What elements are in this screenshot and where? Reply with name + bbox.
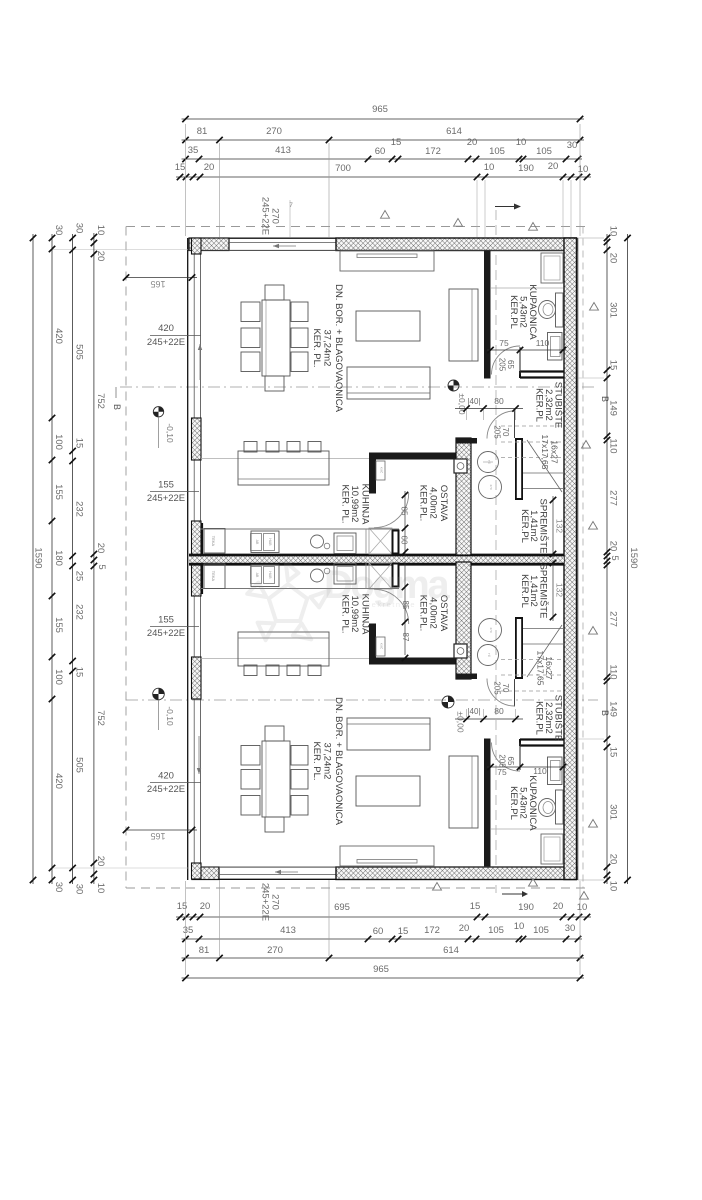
dim col right detail: [604, 226, 620, 892]
svg-text:205: 205: [498, 358, 507, 372]
section line B-B bottom: [126, 700, 610, 716]
svg-text:20: 20: [548, 161, 559, 172]
left wall pillar 180 centre: [192, 521, 203, 596]
axis markers bottom: [433, 879, 538, 891]
svg-text:30: 30: [74, 884, 85, 895]
watermark logo: [247, 562, 450, 640]
svg-text:KER.PL: KER.PL: [534, 701, 545, 735]
svg-text:35: 35: [188, 145, 199, 156]
door jamb pillar top: [393, 531, 399, 554]
top wall inner face line: [189, 250, 576, 252]
room label kitchen top: [340, 484, 371, 525]
svg-text:81: 81: [199, 945, 210, 956]
svg-text:752: 752: [95, 710, 106, 726]
svg-text:155: 155: [158, 480, 174, 491]
svg-text:172: 172: [424, 925, 440, 936]
svg-text:172: 172: [425, 146, 441, 157]
bathroom west wall bottom: [484, 739, 491, 867]
kitchen wall top unit: [369, 453, 467, 494]
door jamb pillar bottom: [393, 564, 399, 587]
svg-text:245+22E: 245+22E: [147, 784, 185, 795]
toilet top: [539, 293, 564, 327]
kitchen island bottom unit: [238, 632, 329, 666]
section line through stairwell: [495, 204, 528, 898]
svg-text:270: 270: [266, 126, 282, 137]
left wall bottom corner: [192, 863, 202, 879]
svg-text:-0,10: -0,10: [165, 706, 175, 726]
svg-text:505: 505: [74, 757, 85, 773]
svg-text:KUHINJA: KUHINJA: [360, 484, 371, 525]
svg-text:30: 30: [53, 225, 64, 236]
svg-text:420: 420: [53, 773, 64, 789]
door label 65/205 top: [498, 358, 516, 372]
svg-text:105: 105: [533, 925, 549, 936]
svg-text:10: 10: [516, 137, 527, 148]
svg-text:KUĆ: KUĆ: [380, 643, 385, 650]
dim 40-80 bottom: [455, 706, 523, 722]
svg-text:10: 10: [514, 921, 525, 932]
svg-text:420: 420: [158, 323, 174, 334]
svg-text:232: 232: [74, 604, 85, 620]
dining table top unit: [262, 300, 290, 376]
stair size label top: [540, 435, 560, 470]
svg-text:80: 80: [494, 396, 504, 406]
svg-text:5: 5: [96, 564, 107, 569]
svg-text:205: 205: [498, 754, 507, 768]
coffee table top unit: [356, 311, 420, 341]
svg-text:15: 15: [608, 747, 619, 758]
svg-text:277: 277: [608, 490, 619, 506]
svg-text:87: 87: [401, 633, 410, 642]
window label 270 bottom: [260, 883, 281, 921]
svg-text:AB: AB: [255, 573, 259, 578]
ostava door arc bottom: [374, 589, 409, 624]
section line B-B top: [112, 387, 610, 410]
svg-text:155: 155: [53, 617, 64, 633]
svg-text:HAB: HAB: [268, 538, 272, 546]
svg-text:205: 205: [493, 425, 502, 439]
svg-text:KER.PL: KER.PL: [508, 295, 519, 329]
kitchen wall bottom unit: [369, 624, 467, 665]
svg-text:110: 110: [608, 664, 619, 679]
svg-text:132: 132: [555, 519, 565, 533]
svg-text:301: 301: [608, 302, 619, 318]
ostava door arc top: [374, 493, 409, 528]
svg-text:20: 20: [200, 901, 211, 912]
left wall pillar 100 lower: [192, 657, 202, 699]
svg-text:KER.PL: KER.PL: [534, 388, 545, 422]
sink bottom unit: [251, 565, 280, 587]
bathroom south wall bottom: [520, 739, 564, 746]
svg-text:10: 10: [95, 883, 106, 894]
room label kitchen bottom: [340, 594, 371, 635]
tall cupboard bottom: [376, 637, 385, 656]
svg-text:752: 752: [95, 393, 106, 409]
cooktop top unit: [311, 535, 330, 549]
svg-text:7: 7: [289, 202, 293, 209]
svg-text:37,24m2: 37,24m2: [322, 743, 333, 780]
bottom wall window opening arrow: [275, 870, 298, 874]
svg-text:965: 965: [373, 964, 389, 975]
svg-text:149: 149: [608, 701, 619, 717]
dim 132 top: [550, 496, 565, 557]
cupboard O top: [454, 459, 467, 473]
svg-text:420: 420: [158, 771, 174, 782]
spremiste wall bottom: [456, 562, 477, 679]
svg-text:277: 277: [608, 611, 619, 627]
svg-text:100: 100: [53, 669, 64, 685]
svg-text:110: 110: [608, 438, 619, 453]
svg-text:KER.PL.: KER.PL.: [418, 485, 429, 521]
svg-text:10: 10: [608, 881, 619, 892]
svg-text:KER.PL: KER.PL: [519, 574, 530, 608]
right wall hatched: [564, 238, 577, 880]
svg-text:B: B: [112, 404, 122, 410]
svg-text:965: 965: [372, 104, 388, 115]
svg-text:149: 149: [608, 400, 619, 416]
svg-text:AB: AB: [255, 540, 259, 545]
stair treads top: [501, 426, 564, 492]
washbasin bottom: [548, 757, 563, 785]
svg-text:15: 15: [470, 901, 481, 912]
bottom wall corner pillar: [192, 867, 219, 880]
window label 155 lower-left: [147, 615, 199, 640]
sofa top unit: [347, 367, 430, 399]
svg-text:75: 75: [499, 338, 509, 348]
left wall top corner: [192, 238, 202, 254]
dining table bottom unit: [262, 741, 290, 817]
svg-text:20: 20: [204, 162, 215, 173]
svg-text:20: 20: [95, 251, 106, 262]
svg-text:KER.PL: KER.PL: [508, 786, 519, 820]
kitchen counter top unit: [201, 459, 399, 555]
dim col 4 left: [91, 225, 107, 894]
svg-text:110: 110: [533, 766, 547, 776]
top wall main hatched: [336, 238, 577, 251]
svg-text:KER. PL.: KER. PL.: [311, 741, 322, 780]
svg-text:190: 190: [518, 902, 534, 913]
hall door bottom: [487, 679, 515, 707]
coffee table bottom unit: [356, 776, 420, 806]
svg-text:413: 413: [280, 925, 296, 936]
stair size label bottom: [536, 651, 555, 686]
dim col 3 left: [69, 223, 84, 895]
svg-text:17x17,65: 17x17,65: [536, 651, 546, 686]
left wall window opening arrow lower: [197, 736, 201, 774]
dim 75-110 top: [487, 338, 566, 353]
svg-text:81: 81: [197, 126, 208, 137]
svg-text:165: 165: [150, 279, 165, 289]
dim row 81-270-614 bottom: [182, 945, 585, 961]
svg-text:DN. BOR. + BLAGOVAONICA: DN. BOR. + BLAGOVAONICA: [333, 697, 344, 826]
left wall pillar 100 upper: [192, 418, 202, 460]
dim col 2 left: [49, 225, 64, 893]
svg-text:245+22E: 245+22E: [260, 197, 271, 235]
boilers top: [478, 452, 502, 499]
svg-text:232: 232: [74, 501, 85, 517]
room label spremiste bottom: [519, 564, 549, 619]
svg-text:245+22E: 245+22E: [147, 493, 185, 504]
bathroom door 65 top: [492, 346, 521, 375]
dim col 1590 right: [624, 234, 639, 884]
shower top: [491, 253, 563, 288]
svg-text:270: 270: [267, 945, 283, 956]
svg-text:20: 20: [459, 923, 470, 934]
svg-text:HAB: HAB: [268, 571, 272, 579]
room label ostava top: [418, 485, 450, 522]
svg-text:505: 505: [74, 344, 85, 360]
svg-text:20: 20: [95, 543, 106, 554]
hall door top: [487, 411, 515, 439]
svg-text:420: 420: [53, 328, 64, 344]
vent shaft top: [369, 528, 392, 554]
svg-text:105: 105: [536, 146, 552, 157]
svg-text:10: 10: [608, 226, 619, 237]
svg-text:10: 10: [95, 225, 106, 236]
cupboard O bottom: [454, 644, 467, 658]
door label 65/205 bottom: [498, 754, 516, 768]
tall cupboard top: [376, 461, 385, 480]
svg-text:20: 20: [608, 253, 619, 264]
svg-text:20: 20: [467, 137, 478, 148]
svg-text:-0,10: -0,10: [165, 423, 175, 443]
bottom wall inner face line: [192, 866, 576, 868]
svg-text:10: 10: [484, 162, 495, 173]
svg-text:15: 15: [398, 926, 409, 937]
sofa bottom unit: [347, 718, 430, 750]
svg-text:15: 15: [74, 438, 85, 449]
svg-text:180: 180: [53, 550, 64, 566]
svg-text:270: 270: [489, 627, 493, 632]
bathroom door 65 bottom: [492, 743, 521, 772]
svg-text:25: 25: [74, 571, 85, 582]
svg-text:KUĆ: KUĆ: [380, 467, 385, 474]
svg-text:TEKA: TEKA: [211, 571, 216, 582]
stair treads bottom: [501, 625, 564, 691]
svg-text:75: 75: [497, 767, 507, 777]
window label 420 upper-left: [147, 323, 201, 348]
roof overhang dashed outline: [126, 227, 586, 889]
svg-text:695: 695: [334, 902, 350, 913]
door label 70/205 top: [493, 425, 511, 439]
central wall: [189, 555, 564, 564]
svg-text:80: 80: [494, 706, 504, 716]
svg-text:35: 35: [183, 925, 194, 936]
svg-text:KER. PL.: KER. PL.: [340, 484, 351, 523]
room label ostava bottom: [418, 595, 450, 632]
left extension lines: [52, 250, 188, 869]
window label 420 lower-left: [147, 771, 201, 796]
dim 85-87 bottom: [401, 561, 410, 661]
room label stubiste top: [534, 382, 564, 428]
vent shaft bottom: [369, 563, 392, 589]
svg-text:17x17,65: 17x17,65: [540, 435, 550, 470]
svg-text:105: 105: [489, 146, 505, 157]
boilers bottom: [478, 619, 502, 666]
svg-text:85: 85: [401, 601, 410, 610]
svg-text:60: 60: [400, 536, 409, 545]
fridge top unit: [204, 529, 225, 554]
bathroom south wall top: [520, 371, 564, 378]
svg-text:245+22E: 245+22E: [260, 883, 271, 921]
svg-text:|40|: |40|: [467, 707, 480, 716]
svg-text:110: 110: [536, 338, 550, 348]
svg-text:301: 301: [608, 804, 619, 820]
kitchen island top unit: [238, 451, 329, 485]
svg-text:20: 20: [95, 856, 106, 867]
svg-text:10: 10: [577, 902, 588, 913]
dim 75-110 bottom: [487, 764, 566, 777]
svg-text:KER. PL.: KER. PL.: [311, 328, 322, 367]
svg-text:413: 413: [275, 145, 291, 156]
svg-text:30: 30: [565, 923, 576, 934]
room label kupaonica top: [508, 284, 538, 340]
svg-text:15: 15: [608, 360, 619, 371]
oven top unit: [334, 533, 356, 554]
sideboard top unit: [340, 251, 434, 271]
toilet bottom: [539, 790, 564, 824]
svg-text:15: 15: [391, 137, 402, 148]
window label 270 top: [260, 197, 294, 237]
island stools bottom unit: [244, 665, 321, 676]
svg-text:5: 5: [609, 555, 620, 560]
right wall outer line: [577, 238, 579, 880]
svg-text:16x27: 16x27: [550, 440, 560, 463]
dim 132 bottom: [550, 560, 565, 621]
svg-text:270: 270: [489, 484, 493, 489]
svg-text:1590: 1590: [33, 547, 44, 568]
level marker -0.10 top: [153, 407, 175, 448]
left wall window opening arrow upper: [198, 344, 202, 380]
dim col 1590 left: [30, 234, 44, 884]
svg-text:20: 20: [608, 854, 619, 865]
room label spremiste top: [519, 499, 549, 554]
level marker -0.10 bottom: [153, 688, 175, 730]
spremiste wall top: [456, 438, 477, 555]
svg-text:10: 10: [578, 164, 589, 175]
svg-text:205: 205: [493, 681, 502, 695]
svg-text:15: 15: [175, 162, 186, 173]
extension lines top dims: [186, 124, 581, 237]
left wall lines: [188, 238, 201, 880]
window label 155 upper-left: [147, 480, 199, 505]
svg-text:132: 132: [555, 583, 565, 597]
svg-text:100: 100: [53, 434, 64, 450]
svg-text:190: 190: [518, 163, 534, 174]
svg-text:37,24m2: 37,24m2: [322, 330, 333, 367]
svg-text:165: 165: [150, 831, 165, 841]
island stools top unit: [244, 442, 321, 453]
svg-text:155: 155: [53, 484, 64, 500]
extension lines bottom dims: [186, 880, 581, 975]
wardrobe bottom unit: [449, 756, 478, 828]
fridge bottom unit: [204, 564, 225, 589]
room label kupaonica bottom: [508, 775, 538, 831]
dim row 81-270-614 top: [182, 126, 585, 143]
shower bottom: [491, 829, 563, 864]
bottom wall window band: [219, 867, 336, 879]
oven bottom unit: [334, 564, 356, 585]
room label living bottom: [311, 697, 344, 826]
room label stubiste bottom: [534, 695, 564, 741]
svg-text:155: 155: [158, 615, 174, 626]
svg-text:60: 60: [375, 146, 386, 157]
room label living top: [311, 284, 344, 413]
svg-text:60: 60: [373, 926, 384, 937]
bottom wall main hatched: [336, 867, 577, 880]
svg-text:245+22E: 245+22E: [147, 337, 185, 348]
dim row 965 bottom: [182, 964, 585, 981]
svg-text:TEKA: TEKA: [211, 536, 216, 547]
svg-text:±0,00: ±0,00: [457, 393, 467, 414]
dim row 35-413 top: [182, 137, 583, 162]
dim row 35-413 bottom: [182, 921, 583, 942]
svg-text:15: 15: [74, 667, 85, 678]
kitchen counter bottom unit: [201, 563, 399, 659]
svg-text:614: 614: [446, 126, 462, 137]
svg-text:OSTAVA: OSTAVA: [438, 485, 449, 522]
wardrobe top unit: [449, 289, 478, 361]
bathroom west wall top: [484, 251, 491, 379]
svg-text:KER.PL: KER.PL: [519, 509, 530, 543]
washbasin top: [548, 333, 563, 361]
svg-text:30: 30: [74, 223, 85, 234]
svg-text:20: 20: [553, 901, 564, 912]
axis markers top: [381, 211, 538, 231]
door label 70/205 bottom: [493, 681, 511, 695]
svg-text:|40|: |40|: [467, 397, 480, 406]
dim row 965 top: [182, 104, 585, 122]
cooktop bottom unit: [311, 568, 330, 582]
svg-text:105: 105: [488, 925, 504, 936]
axis markers right: [580, 303, 599, 900]
svg-text:85: 85: [400, 507, 409, 516]
top wall corner pillar: [189, 238, 229, 251]
svg-text:1590: 1590: [628, 547, 639, 568]
svg-text:DN. BOR. + BLAGOVAONICA: DN. BOR. + BLAGOVAONICA: [333, 284, 344, 413]
dim 40-80 top: [455, 396, 523, 420]
dining chairs bottom unit: [241, 726, 308, 832]
dim 165 bottom: [123, 827, 197, 841]
stair partition top: [515, 438, 523, 500]
dim row 700 top: [175, 161, 591, 180]
svg-text:30: 30: [53, 882, 64, 893]
svg-text:30: 30: [567, 140, 578, 151]
top wall window opening arrow: [273, 244, 296, 248]
dim 165 top: [123, 274, 197, 289]
sink top unit: [251, 531, 280, 553]
dining chairs top unit: [241, 285, 308, 391]
dim 85-60 top: [400, 491, 409, 556]
svg-text:700: 700: [335, 163, 351, 174]
svg-text:245+22E: 245+22E: [147, 628, 185, 639]
level marker +0.00 bottom: [442, 696, 466, 733]
extension stubs right: [578, 238, 604, 880]
dim row 695 bottom: [176, 901, 591, 920]
svg-text:20: 20: [608, 541, 619, 552]
sideboard bottom unit: [340, 846, 434, 866]
top wall window band: [229, 238, 336, 250]
svg-text:614: 614: [443, 945, 459, 956]
stair partition bottom: [515, 617, 523, 679]
level marker +0.00 top: [448, 380, 467, 415]
